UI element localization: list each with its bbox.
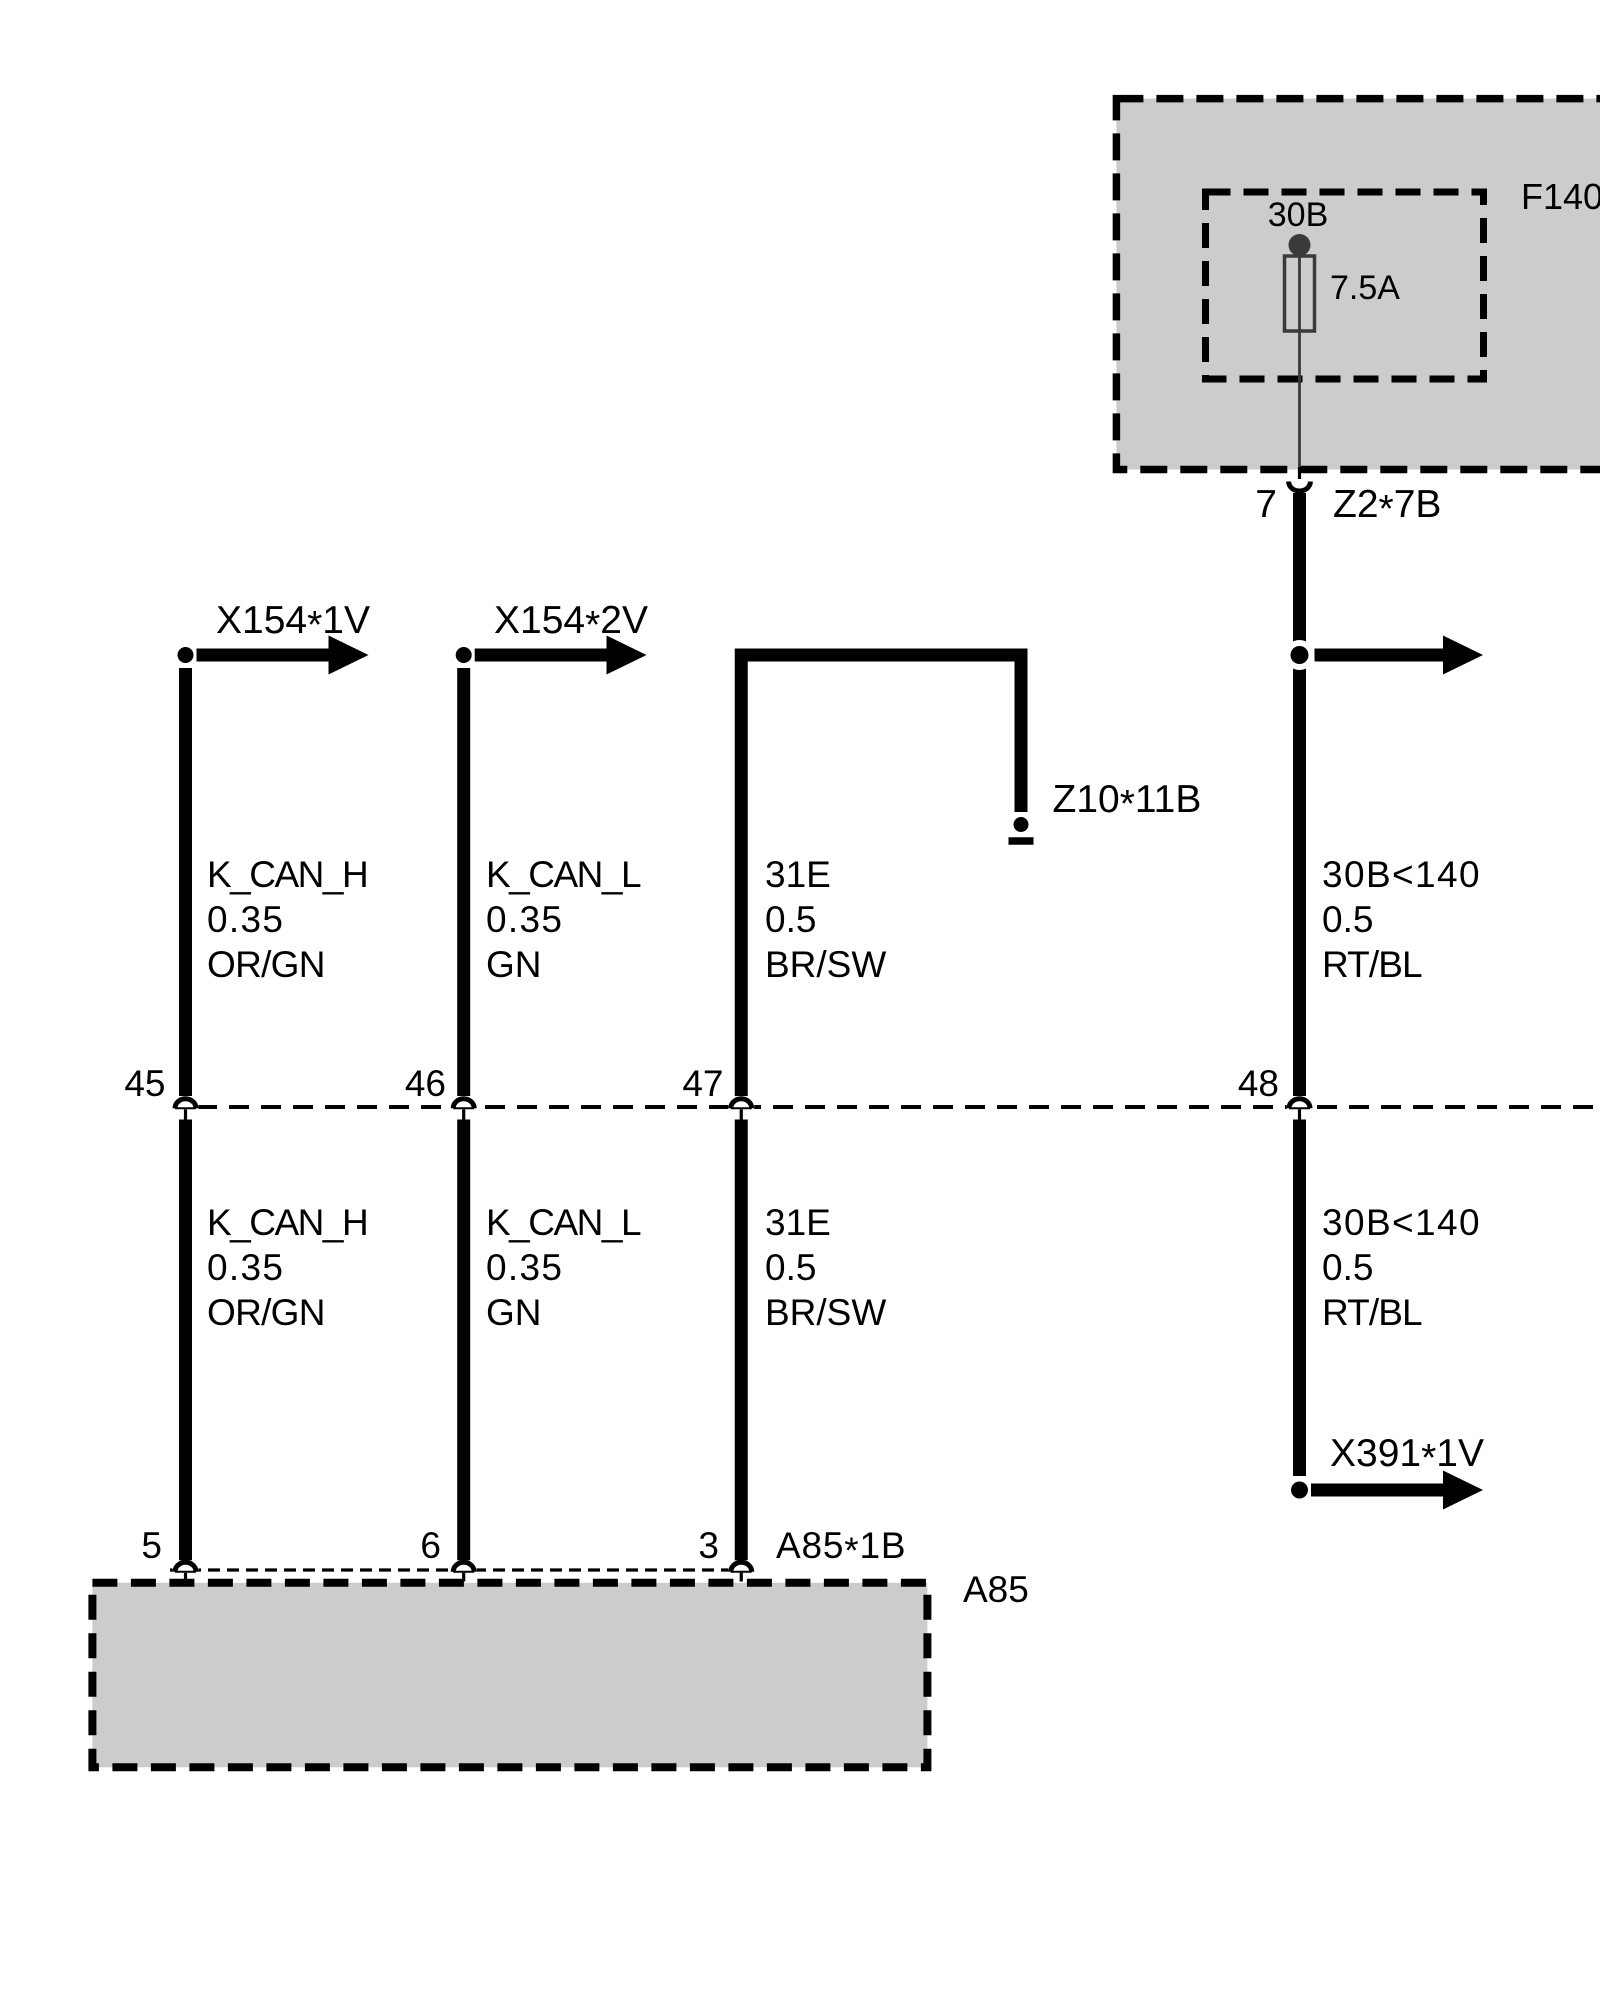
svg-text:30B: 30B	[1268, 196, 1329, 234]
svg-text:48: 48	[1238, 1063, 1279, 1104]
svg-text:0.5: 0.5	[1322, 1247, 1373, 1288]
svg-text:K_CAN_H: K_CAN_H	[207, 1202, 367, 1243]
svg-text:RT/BL: RT/BL	[1322, 944, 1422, 985]
svg-text:0.5: 0.5	[765, 899, 816, 940]
svg-text:45: 45	[124, 1063, 165, 1104]
svg-text:0.5: 0.5	[765, 1247, 816, 1288]
svg-text:5: 5	[141, 1525, 162, 1566]
svg-text:Z10*11B: Z10*11B	[1053, 778, 1202, 826]
svg-text:Z2*7B: Z2*7B	[1333, 483, 1441, 531]
svg-text:0.35: 0.35	[207, 899, 284, 940]
svg-text:7: 7	[1255, 483, 1277, 526]
svg-text:0.35: 0.35	[486, 1247, 563, 1288]
svg-text:BR/SW: BR/SW	[765, 944, 886, 985]
svg-text:K_CAN_H: K_CAN_H	[207, 854, 367, 895]
svg-text:7.5A: 7.5A	[1330, 269, 1400, 307]
svg-text:X154*2V: X154*2V	[494, 599, 648, 647]
svg-text:30B<140: 30B<140	[1322, 1202, 1481, 1243]
svg-text:GN: GN	[486, 944, 542, 985]
svg-text:F140: F140	[1521, 176, 1600, 217]
svg-text:RT/BL: RT/BL	[1322, 1292, 1422, 1333]
svg-text:0.35: 0.35	[207, 1247, 284, 1288]
svg-text:K_CAN_L: K_CAN_L	[486, 1202, 641, 1243]
svg-text:K_CAN_L: K_CAN_L	[486, 854, 641, 895]
svg-text:OR/GN: OR/GN	[207, 944, 325, 985]
svg-text:A85*1B: A85*1B	[776, 1525, 906, 1571]
svg-text:0.35: 0.35	[486, 899, 563, 940]
svg-text:31E: 31E	[765, 854, 831, 895]
svg-text:6: 6	[420, 1525, 441, 1566]
svg-text:OR/GN: OR/GN	[207, 1292, 325, 1333]
svg-text:GN: GN	[486, 1292, 542, 1333]
svg-text:A85: A85	[963, 1569, 1029, 1610]
svg-text:X391*1V: X391*1V	[1330, 1432, 1484, 1480]
svg-text:BR/SW: BR/SW	[765, 1292, 886, 1333]
svg-text:31E: 31E	[765, 1202, 831, 1243]
svg-text:0.5: 0.5	[1322, 899, 1373, 940]
svg-text:30B<140: 30B<140	[1322, 854, 1481, 895]
svg-text:3: 3	[698, 1525, 719, 1566]
svg-text:47: 47	[682, 1063, 723, 1104]
svg-text:X154*1V: X154*1V	[216, 599, 370, 647]
svg-text:46: 46	[405, 1063, 446, 1104]
